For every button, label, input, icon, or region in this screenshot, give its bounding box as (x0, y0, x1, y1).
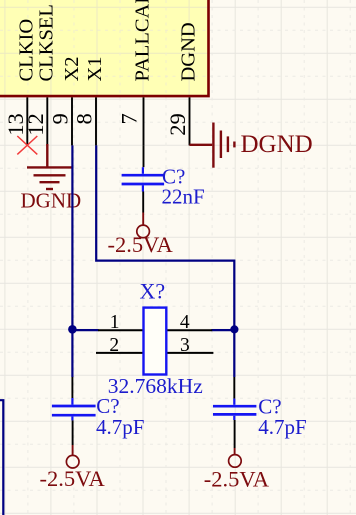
wire at left edge (cropped) (0, 400, 3, 515)
capacitor C1 22nF (143, 145, 145, 167)
wire: crystal pin 4 to right wire (212, 329, 235, 331)
power port DGND (right of pin 29) (190, 123, 235, 168)
svg-text:CLKIO: CLKIO (16, 19, 38, 82)
svg-text:DGND: DGND (178, 22, 200, 81)
svg-text:X?: X? (140, 279, 166, 304)
pin 9 (71, 97, 73, 145)
svg-text:DGND: DGND (241, 131, 313, 158)
svg-text:PALLCAP: PALLCAP (132, 0, 154, 82)
pin 7 (143, 97, 145, 145)
IC U1 body (0, 0, 350, 96)
crystal X1 pins (96, 330, 213, 353)
svg-text:22nF: 22nF (162, 184, 205, 208)
no-ERC marker on pin 13 (17, 136, 37, 154)
svg-text:9: 9 (48, 113, 73, 124)
svg-text:1: 1 (110, 312, 120, 333)
svg-text:3: 3 (180, 335, 190, 356)
svg-text:32.768kHz: 32.768kHz (108, 374, 203, 398)
capacitor C3 4.7pF (right) (233, 377, 235, 399)
svg-text:4.7pF: 4.7pF (258, 415, 306, 439)
capacitor C2 4.7pF (left) (71, 377, 73, 398)
pin 13 (26, 97, 28, 145)
pin 8 (95, 97, 97, 145)
svg-text:-2.5VA: -2.5VA (108, 232, 174, 257)
svg-text:-2.5VA: -2.5VA (204, 466, 270, 491)
wire: pin 9 (X2) down to left cap / crystal junction (71, 145, 73, 377)
svg-text:X2: X2 (61, 56, 83, 81)
svg-text:12: 12 (23, 113, 48, 136)
wire: junction stub to crystal pin 1 (72, 329, 98, 331)
pin 12 (46, 97, 48, 145)
power port DGND (ground under pin 12) (27, 144, 72, 189)
svg-text:7: 7 (117, 113, 142, 124)
pin 29 (189, 97, 191, 145)
svg-text:4.7pF: 4.7pF (96, 415, 144, 439)
svg-text:8: 8 (72, 113, 97, 124)
svg-text:29: 29 (165, 113, 190, 136)
power port -2.5VA (left) (72, 445, 74, 455)
svg-text:X1: X1 (84, 56, 106, 81)
svg-text:4: 4 (180, 312, 190, 333)
svg-text:CLKSEL: CLKSEL (36, 4, 58, 81)
power port -2.5VA (top) (142, 213, 144, 226)
wire: pin 8 (X1) down, right, down to right cap (96, 145, 234, 377)
junction right (230, 325, 238, 333)
svg-text:-2.5VA: -2.5VA (40, 466, 106, 491)
junction left (68, 325, 77, 334)
power port -2.5VA (right) (234, 448, 236, 455)
crystal X? body (144, 308, 167, 375)
svg-text:2: 2 (109, 335, 119, 356)
